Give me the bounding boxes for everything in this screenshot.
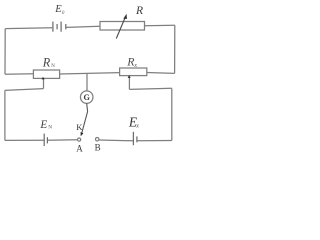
- label Ex: [128, 114, 139, 129]
- svg-text:R: R: [135, 4, 143, 17]
- resistor R box: [100, 22, 145, 31]
- wire left outer rail: [4, 29, 6, 75]
- label B: [95, 143, 101, 153]
- wire galvanometer drop: [86, 74, 88, 91]
- svg-text:x: x: [133, 63, 137, 69]
- svg-text:R: R: [42, 55, 51, 69]
- galvanometer G circle: [80, 91, 93, 104]
- wire top-left segment: [5, 27, 52, 30]
- potentiometer RN wiper arrow: [42, 77, 45, 80]
- svg-text:N: N: [51, 64, 55, 69]
- label RN: [42, 55, 56, 69]
- svg-text:N: N: [48, 125, 52, 131]
- svg-text:G: G: [84, 93, 91, 102]
- potentiometer RN box: [33, 70, 59, 78]
- wire left wiper to left rail: [5, 89, 44, 91]
- label A: [76, 144, 83, 154]
- rheostat R slider arrow: [116, 14, 127, 39]
- potentiometer Rx wiper arrow: [128, 75, 131, 78]
- wire right wiper vertical: [128, 78, 130, 90]
- battery Ex plate short: [136, 136, 138, 142]
- label G: [84, 93, 91, 102]
- battery EN plate long: [43, 134, 45, 146]
- svg-text:B: B: [95, 143, 101, 153]
- wire between pots with node T: [60, 73, 120, 74]
- switch K lever upper segment: [86, 103, 89, 111]
- svg-text:E: E: [39, 119, 47, 131]
- svg-text:x: x: [135, 124, 139, 130]
- wire lower-left rail: [4, 90, 6, 140]
- label EN: [39, 119, 52, 131]
- battery E0 plate long left: [52, 22, 54, 32]
- wire top-middle segment (battery to R): [67, 26, 101, 27]
- label Rx: [126, 55, 137, 69]
- battery E0 plate long right: [60, 22, 62, 32]
- svg-text:K: K: [76, 122, 83, 132]
- svg-text:A: A: [76, 144, 83, 154]
- switch K lever blade: [81, 112, 88, 137]
- battery EN plate short: [46, 137, 48, 143]
- wire battery EN to contact A: [48, 139, 78, 141]
- wire top-right segment (R to corner): [145, 24, 175, 27]
- wire right wiper to right inner rail: [129, 88, 171, 89]
- label K: [76, 122, 83, 132]
- wire bottom-left to battery EN: [5, 139, 44, 141]
- battery Ex plate long: [132, 132, 134, 145]
- wire left pot left terminal: [5, 73, 33, 75]
- wire lower-right inner rail: [171, 88, 173, 140]
- wire bottom-right corner to battery Ex: [137, 140, 172, 142]
- svg-text:0: 0: [62, 11, 65, 16]
- wire left wiper vertical: [43, 79, 45, 89]
- contact B circle: [95, 137, 99, 141]
- potentiometer Rx box: [120, 68, 147, 76]
- battery E0 plate short left: [56, 24, 58, 29]
- wire battery Ex to contact B: [99, 139, 133, 142]
- wire right outer rail: [174, 25, 176, 73]
- contact A circle: [78, 138, 81, 141]
- battery E0 plate short right: [65, 24, 67, 29]
- label E0: [54, 4, 65, 16]
- wire right pot right terminal: [147, 72, 175, 75]
- label R: [135, 4, 143, 17]
